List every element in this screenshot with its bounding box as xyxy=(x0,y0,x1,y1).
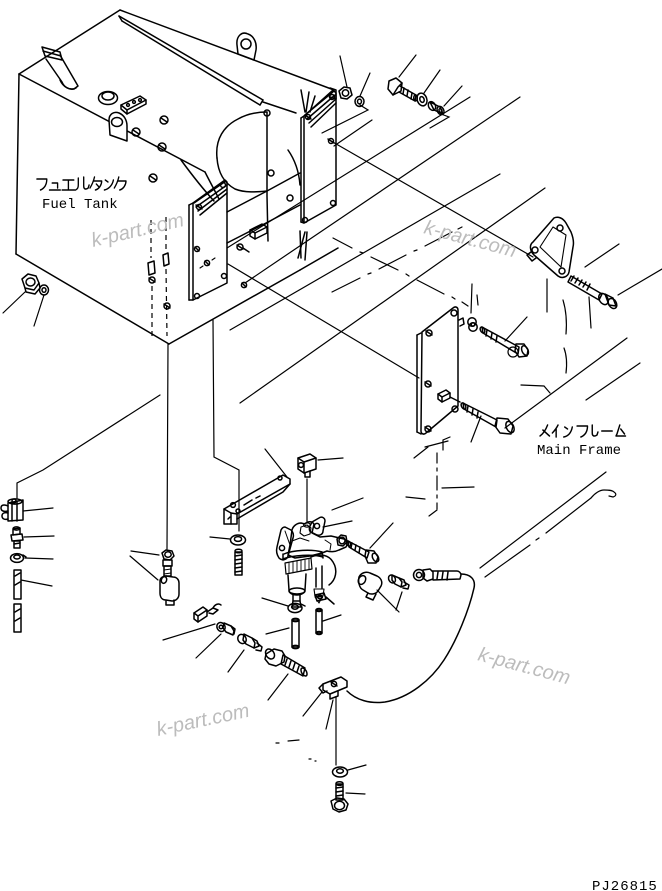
mid bolt upper xyxy=(479,326,530,357)
washer pair right of plate xyxy=(468,318,477,331)
right mounting plate on tank xyxy=(301,90,336,223)
fuel tank main outline xyxy=(16,10,334,344)
leaders right of separator xyxy=(323,498,363,527)
leader to washer pair xyxy=(471,284,472,313)
filler neck xyxy=(42,47,78,89)
hose nipple fitting xyxy=(414,569,462,581)
small screw on dashed 2 xyxy=(164,303,170,309)
hose clamp left xyxy=(11,554,27,563)
leader from washer xyxy=(348,765,366,770)
leader from bolt xyxy=(370,523,393,548)
tube right xyxy=(316,609,322,635)
bolt dash-dot axis xyxy=(333,238,468,306)
bolt below triangle xyxy=(568,276,619,310)
plate axis line to triangle xyxy=(331,141,533,257)
tube 2 left xyxy=(14,604,21,632)
plug fitting center xyxy=(162,550,174,576)
tank corner below right plate xyxy=(298,231,338,270)
svg-text:Main Frame: Main Frame xyxy=(537,443,621,459)
leader from solenoid xyxy=(318,458,343,460)
hex nut beside plate xyxy=(330,87,352,99)
block with holes on top face xyxy=(121,96,146,114)
hose loop xyxy=(347,574,474,703)
leader below triangle xyxy=(546,279,548,312)
long leader to nut below xyxy=(167,344,168,549)
leader to washer xyxy=(210,537,230,539)
bolt below washer xyxy=(235,549,242,575)
leader from fitting xyxy=(24,536,54,537)
long leader to washer below xyxy=(213,320,239,531)
svg-text:PJ26815: PJ26815 xyxy=(592,879,658,891)
clamp below separator xyxy=(288,603,305,612)
mounting bracket xyxy=(224,475,290,524)
pin on dashed line 2 xyxy=(163,253,169,266)
triangular plate xyxy=(527,217,573,277)
spacer top right xyxy=(427,100,446,116)
bolt bottom xyxy=(331,782,348,812)
fitting b xyxy=(236,633,262,651)
separator body xyxy=(288,574,306,607)
washer right of separator xyxy=(337,535,347,546)
solenoid stem xyxy=(304,479,311,527)
clip on middle plate xyxy=(438,390,460,402)
drain valve xyxy=(1,499,23,521)
nut left of tank xyxy=(22,274,40,294)
frame line right bottom F1 xyxy=(505,338,627,428)
mid bolt lower xyxy=(460,402,516,434)
frame line L3 xyxy=(230,174,500,330)
left mounting plate on tank xyxy=(189,180,247,300)
elbow center xyxy=(160,576,179,605)
leader from nipple xyxy=(268,674,288,700)
washer bottom xyxy=(333,767,348,777)
dashed leader 1 upper xyxy=(150,220,152,258)
dashed leader 2 upper xyxy=(165,217,167,250)
hidden hose sketch arcs xyxy=(508,300,567,393)
pin on dashed line 1 xyxy=(148,261,155,275)
funnel above left plate xyxy=(181,160,219,201)
leader from nipple xyxy=(396,592,402,610)
lifting eye on top edge xyxy=(237,33,256,60)
frame hidden edge dash-dot xyxy=(332,227,462,292)
tube 1 left xyxy=(14,570,21,599)
hose straight double line xyxy=(480,472,616,577)
leaders to tubes xyxy=(266,615,341,634)
leader to bracket xyxy=(265,449,287,477)
leaders to hose elbow xyxy=(303,692,333,729)
tank interior shelf lines xyxy=(227,150,300,243)
separator ribbed ring xyxy=(285,558,312,574)
leader from clip xyxy=(163,624,215,640)
small bolts on tank face xyxy=(132,110,293,201)
water separator left ear xyxy=(277,527,294,560)
leader from valve xyxy=(23,508,53,511)
water separator head body xyxy=(288,522,347,558)
fuel cap xyxy=(99,92,118,105)
leader from elbow xyxy=(377,590,399,612)
dashed leader 2 lower xyxy=(166,269,167,336)
tube left xyxy=(292,618,299,648)
frame line L2 xyxy=(245,97,520,283)
washer below bracket xyxy=(231,535,246,545)
bracket mark below middle plate xyxy=(414,437,450,458)
hose fitting left xyxy=(11,527,23,548)
leader from clamp xyxy=(262,598,288,606)
tank recess opening curve xyxy=(217,112,268,241)
funnel above right plate xyxy=(301,90,315,112)
leader from mid bolt xyxy=(505,317,527,341)
dash marks bottom xyxy=(276,740,316,761)
label main frame katakana xyxy=(540,425,626,437)
leader to plug xyxy=(131,551,159,555)
leader from tube 1 xyxy=(21,580,52,586)
leader to mid bolt xyxy=(477,295,478,305)
washer top right xyxy=(415,92,428,107)
leader from clamp xyxy=(25,558,53,559)
svg-text:Fuel Tank: Fuel Tank xyxy=(42,197,118,213)
leader from fitting a xyxy=(196,634,221,658)
long leader to drain valve xyxy=(17,395,160,498)
leader from elbow center xyxy=(130,556,158,580)
washer beside nut xyxy=(355,97,364,107)
frame line right bottom F2 xyxy=(586,363,640,400)
label fuel tank katakana xyxy=(37,177,126,190)
long nipple xyxy=(264,647,309,677)
small bolt right of left plate xyxy=(237,244,249,252)
frame line L1 xyxy=(227,97,470,248)
frame line right upper S1 xyxy=(618,269,662,295)
leader from fitting b xyxy=(228,650,244,672)
leader from hose elbow down xyxy=(335,697,337,765)
dashed leader 1 lower xyxy=(151,286,153,336)
interior small block xyxy=(250,224,267,239)
leader from bolt xyxy=(346,793,365,794)
clip piece xyxy=(194,604,221,622)
separator flange xyxy=(283,550,323,560)
plate axis line to middle plate xyxy=(228,264,419,378)
leaders from nut and washer xyxy=(3,292,44,326)
bolt right of separator xyxy=(345,540,380,563)
clamp right xyxy=(315,593,334,604)
fitting a xyxy=(215,621,235,635)
secondary bowl xyxy=(311,555,336,603)
small screw on dashed 1 xyxy=(149,277,155,283)
leader below bolt xyxy=(589,297,591,328)
washer left of tank xyxy=(40,285,49,295)
middle mounting plate xyxy=(417,307,464,434)
leader to triangle bolt xyxy=(585,244,619,267)
hose end elbow xyxy=(319,677,347,699)
small fitting right xyxy=(387,574,409,589)
leader from lower bolt xyxy=(471,416,481,442)
bolt top right xyxy=(388,78,417,101)
water separator right ear xyxy=(309,517,325,535)
frame line L4 xyxy=(240,188,545,403)
leader lines top right xyxy=(322,55,462,146)
centerline marker xyxy=(406,441,474,516)
solenoid box xyxy=(298,454,316,477)
lifting eye bracket on front xyxy=(109,112,127,141)
tank top rail strip xyxy=(119,16,296,113)
elbow fitting right xyxy=(357,572,382,600)
